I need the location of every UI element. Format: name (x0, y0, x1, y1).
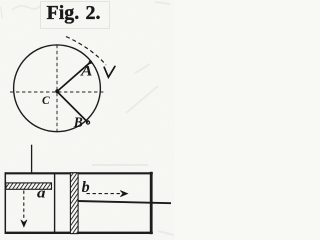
partition line (54, 173, 56, 234)
piston rod line (78, 201, 172, 203)
cylinder right wall (150, 172, 153, 234)
radius C to B (57, 92, 88, 123)
dashed right arrow (87, 193, 121, 195)
rotation arrowhead (104, 66, 115, 77)
faint smudge right middle (1, 2, 174, 235)
dashed vertical diameter (56, 45, 58, 132)
dashed down arrow in left chamber (23, 191, 25, 220)
paper texture noise (0, 0, 1, 1)
radius C to A (57, 62, 90, 91)
cylinder left wall (4, 172, 6, 234)
node B dot (86, 121, 89, 124)
paper background (0, 0, 175, 240)
connecting rod line from above (31, 145, 33, 174)
node A dot (89, 61, 92, 64)
right arrowhead (120, 191, 128, 197)
hatched bar a (6, 183, 52, 189)
dashed rotation arc (66, 37, 106, 66)
down arrowhead (21, 220, 27, 227)
faint caption box (41, 2, 110, 29)
hatched piston strip (70, 173, 78, 234)
cylinder bottom edge (5, 232, 153, 234)
node C dot (55, 89, 59, 93)
faint line above cylinder right (92, 164, 148, 166)
cylinder top edge (5, 172, 153, 174)
circle (14, 45, 101, 132)
dashed horizontal diameter (10, 91, 105, 93)
